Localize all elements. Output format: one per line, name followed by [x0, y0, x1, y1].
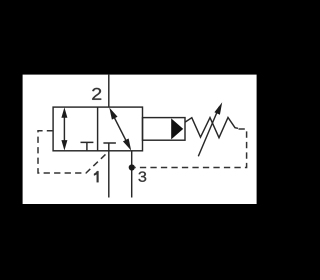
left position blocked port (T symbol)	[81, 142, 94, 150]
port label 1	[94, 171, 99, 182]
left position flow path (double-headed arrow)	[61, 107, 67, 150]
pilot actuator box	[143, 118, 186, 141]
right position blocked port 1 (T symbol)	[103, 143, 116, 151]
drawing canvas	[23, 75, 257, 204]
port 2 line	[108, 75, 110, 108]
port 3 line	[131, 151, 133, 198]
right position flow path 2-3 (double-headed diagonal arrow)	[109, 108, 131, 151]
port label 2	[92, 88, 101, 100]
hydraulic pilot triangle	[171, 118, 183, 139]
adjustment arrow through spring	[198, 102, 222, 156]
port label 3	[139, 172, 147, 182]
valve body (two-position envelope)	[53, 107, 142, 151]
port 1 line	[108, 151, 110, 198]
pilot line (dashed) from left end cap to port 1	[38, 131, 109, 173]
pilot line (dashed) from spring chamber to port 3 node	[135, 129, 247, 168]
junction node on port 3 line	[129, 164, 135, 170]
position divider	[97, 107, 99, 151]
adjustable spring	[185, 118, 238, 138]
